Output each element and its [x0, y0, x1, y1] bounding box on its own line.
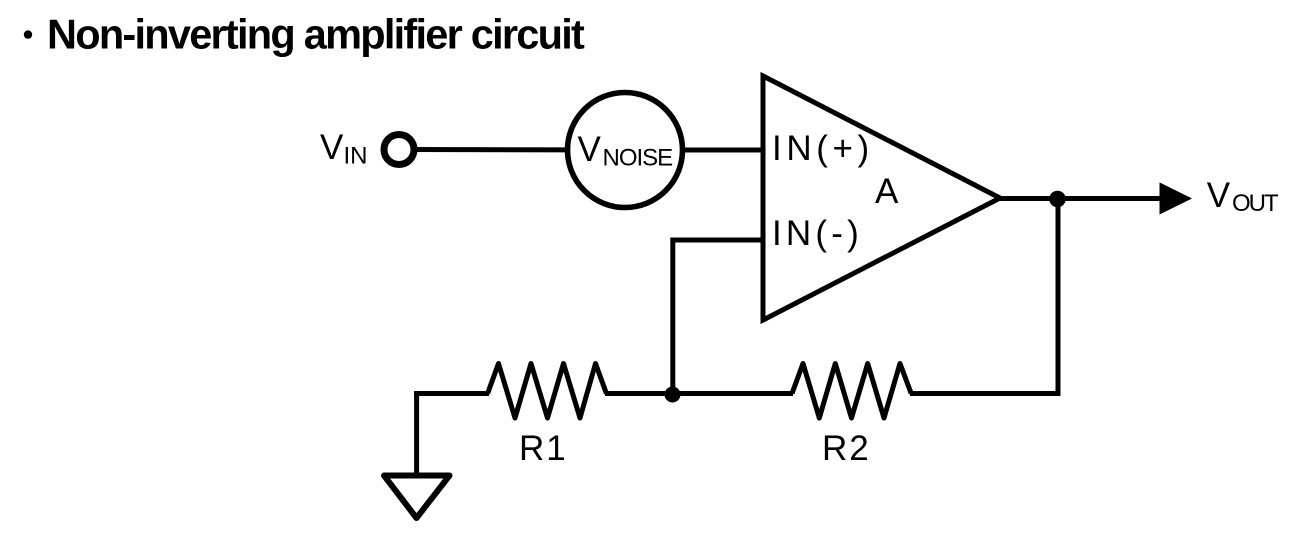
wire: op-amp output [1000, 196, 1163, 201]
label VOUT [1207, 176, 1279, 217]
resistor R2 [792, 364, 911, 419]
label VNOISE [578, 130, 673, 171]
junction at output node [1049, 191, 1066, 208]
wire: output to feedback (right vertical) and bottom run to R2 [910, 199, 1058, 394]
wire: ground stub to R1 [414, 391, 489, 396]
label VIN [320, 128, 368, 170]
svg-text:A: A [875, 172, 899, 211]
resistor R1 [488, 364, 607, 419]
svg-text:IN(+): IN(+) [772, 129, 874, 168]
title bullet [24, 30, 32, 38]
wire: down to ground [414, 391, 419, 476]
svg-text:V: V [1207, 176, 1231, 215]
svg-text:IN: IN [344, 143, 368, 170]
svg-text:R1: R1 [519, 429, 568, 468]
ground [384, 476, 450, 519]
svg-text:R2: R2 [822, 429, 871, 468]
svg-text:OUT: OUT [1232, 190, 1279, 217]
svg-text:V: V [578, 130, 602, 169]
wire: VIN terminal to VNOISE source [412, 147, 630, 153]
noise voltage source VNOISE [568, 93, 683, 208]
svg-text:IN(-): IN(-) [772, 214, 863, 253]
svg-text:NOISE: NOISE [603, 144, 673, 171]
terminal (input port) [384, 135, 414, 165]
wire: R1 to feedback node [605, 391, 793, 396]
junction at feedback node [665, 387, 681, 403]
output arrow [1160, 182, 1193, 214]
wire: VNOISE source to op-amp IN(+) [620, 148, 766, 153]
svg-text:Non-inverting amplifier circui: Non-inverting amplifier circuit [47, 10, 585, 57]
wire: feedback to op-amp IN(-) [673, 240, 766, 395]
svg-text:V: V [320, 128, 344, 167]
op-amp U1 (gain block A) [763, 76, 1000, 320]
